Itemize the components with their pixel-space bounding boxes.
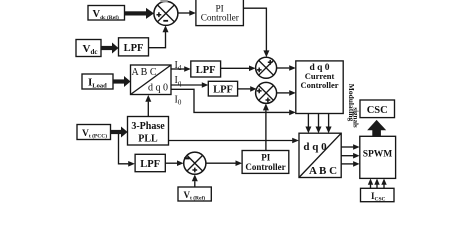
thick arrow Vdc to LPF1 xyxy=(101,43,119,54)
LPF1 (dc voltage filter) xyxy=(119,38,149,56)
transform T1 ABC to dq0 xyxy=(131,65,172,95)
box Vdc(Ref) xyxy=(88,6,125,21)
LPF2 (d-axis filter) xyxy=(191,61,221,77)
summing junction S4 (ac voltage error) xyxy=(184,152,206,174)
svg-text:PLL: PLL xyxy=(138,134,158,145)
label Modulating signals (rotated) xyxy=(347,84,360,128)
wire T2 to SPWM line 3 xyxy=(341,161,359,167)
thick arrow SPWM to CSC xyxy=(367,120,386,137)
wire U2 output up to S3 plus input xyxy=(263,103,269,150)
wire PLL theta to T2 xyxy=(169,138,299,144)
svg-text:Controller: Controller xyxy=(201,14,240,24)
thick arrow Vt(PCC) to PLL xyxy=(111,127,128,138)
SPWM box xyxy=(360,136,396,178)
summing junction S1 (dc voltage error) xyxy=(154,1,178,25)
svg-text:LPF: LPF xyxy=(124,43,144,54)
svg-text:CSC: CSC xyxy=(367,105,388,116)
box Vdc xyxy=(76,40,101,57)
summing junction S3 (q-axis) xyxy=(256,82,277,103)
wire Vt(PCC) branch to LPF4 xyxy=(119,134,135,167)
wire S3 to current controller xyxy=(277,90,296,96)
wire Icsc to SPWM line 2 xyxy=(374,179,379,189)
svg-text:PI: PI xyxy=(261,152,270,162)
wire Icsc to SPWM line 1 xyxy=(368,179,373,189)
wire PLL theta up into T1 xyxy=(145,95,151,117)
svg-text:Controller: Controller xyxy=(300,80,338,90)
thick arrow ILoad to transform T1 xyxy=(113,76,131,87)
PI controller U1 (dc loop, clipped at top) xyxy=(196,0,244,26)
LPF4 (ac voltage filter) xyxy=(135,154,165,171)
svg-text:d q 0: d q 0 xyxy=(148,83,168,94)
wire LPF3 to summer S3 xyxy=(238,86,257,92)
dq0 current controller box xyxy=(296,61,343,114)
svg-text:signals: signals xyxy=(352,107,360,128)
LPF3 (q-axis filter) xyxy=(208,81,237,96)
box Vt(PCC) xyxy=(77,125,111,140)
svg-text:A B C: A B C xyxy=(309,165,337,177)
wire Id to LPF2 xyxy=(171,66,191,72)
wire T2 to SPWM line 2 xyxy=(341,153,359,159)
PI controller U2 (ac loop) xyxy=(242,151,289,174)
svg-text:3-Phase: 3-Phase xyxy=(131,121,165,132)
svg-text:A B C: A B C xyxy=(131,67,156,78)
svg-text:Controller: Controller xyxy=(245,162,285,172)
svg-text:LPF: LPF xyxy=(213,84,233,95)
wire T2 to SPWM line 1 xyxy=(341,144,359,150)
wire controller to T2 line 2 xyxy=(316,114,322,134)
wire S4 to PI controller U2 xyxy=(206,160,242,166)
svg-text:SPWM: SPWM xyxy=(363,149,393,159)
wire controller to T2 line 3 xyxy=(326,114,332,134)
summing junction S2 (d-axis) xyxy=(256,57,277,78)
3-Phase PLL box xyxy=(128,117,169,146)
svg-text:d q 0: d q 0 xyxy=(303,141,327,153)
gray clipped mark above S1 xyxy=(160,0,167,2)
svg-text:LPF: LPF xyxy=(140,159,160,170)
wire LPF4 to summer S4 xyxy=(165,160,183,166)
wire S1 to PI controller U1 xyxy=(178,10,196,16)
wire LPF1 to S1 minus input xyxy=(149,25,169,47)
wire Vt(Ref) to S4 plus input xyxy=(192,174,198,187)
box Icsc xyxy=(361,188,395,202)
box ILoad xyxy=(82,74,113,90)
transform T2 dq0 to ABC xyxy=(299,133,341,177)
wire U1 output to summer S2 xyxy=(243,8,269,57)
wire LPF2 to summer S2 xyxy=(221,66,256,72)
wire controller to T2 line 1 xyxy=(305,114,311,134)
CSC box xyxy=(360,100,395,118)
wire Icsc to SPWM line 3 xyxy=(381,179,386,189)
box Vt(Ref) xyxy=(178,187,211,201)
wire Iq to LPF3 xyxy=(171,82,208,88)
thick arrow Vdc(Ref) to summer S1 xyxy=(125,8,155,19)
wire S2 to current controller xyxy=(277,65,296,71)
svg-text:LPF: LPF xyxy=(196,65,216,76)
wire I0 to current controller xyxy=(171,89,295,115)
